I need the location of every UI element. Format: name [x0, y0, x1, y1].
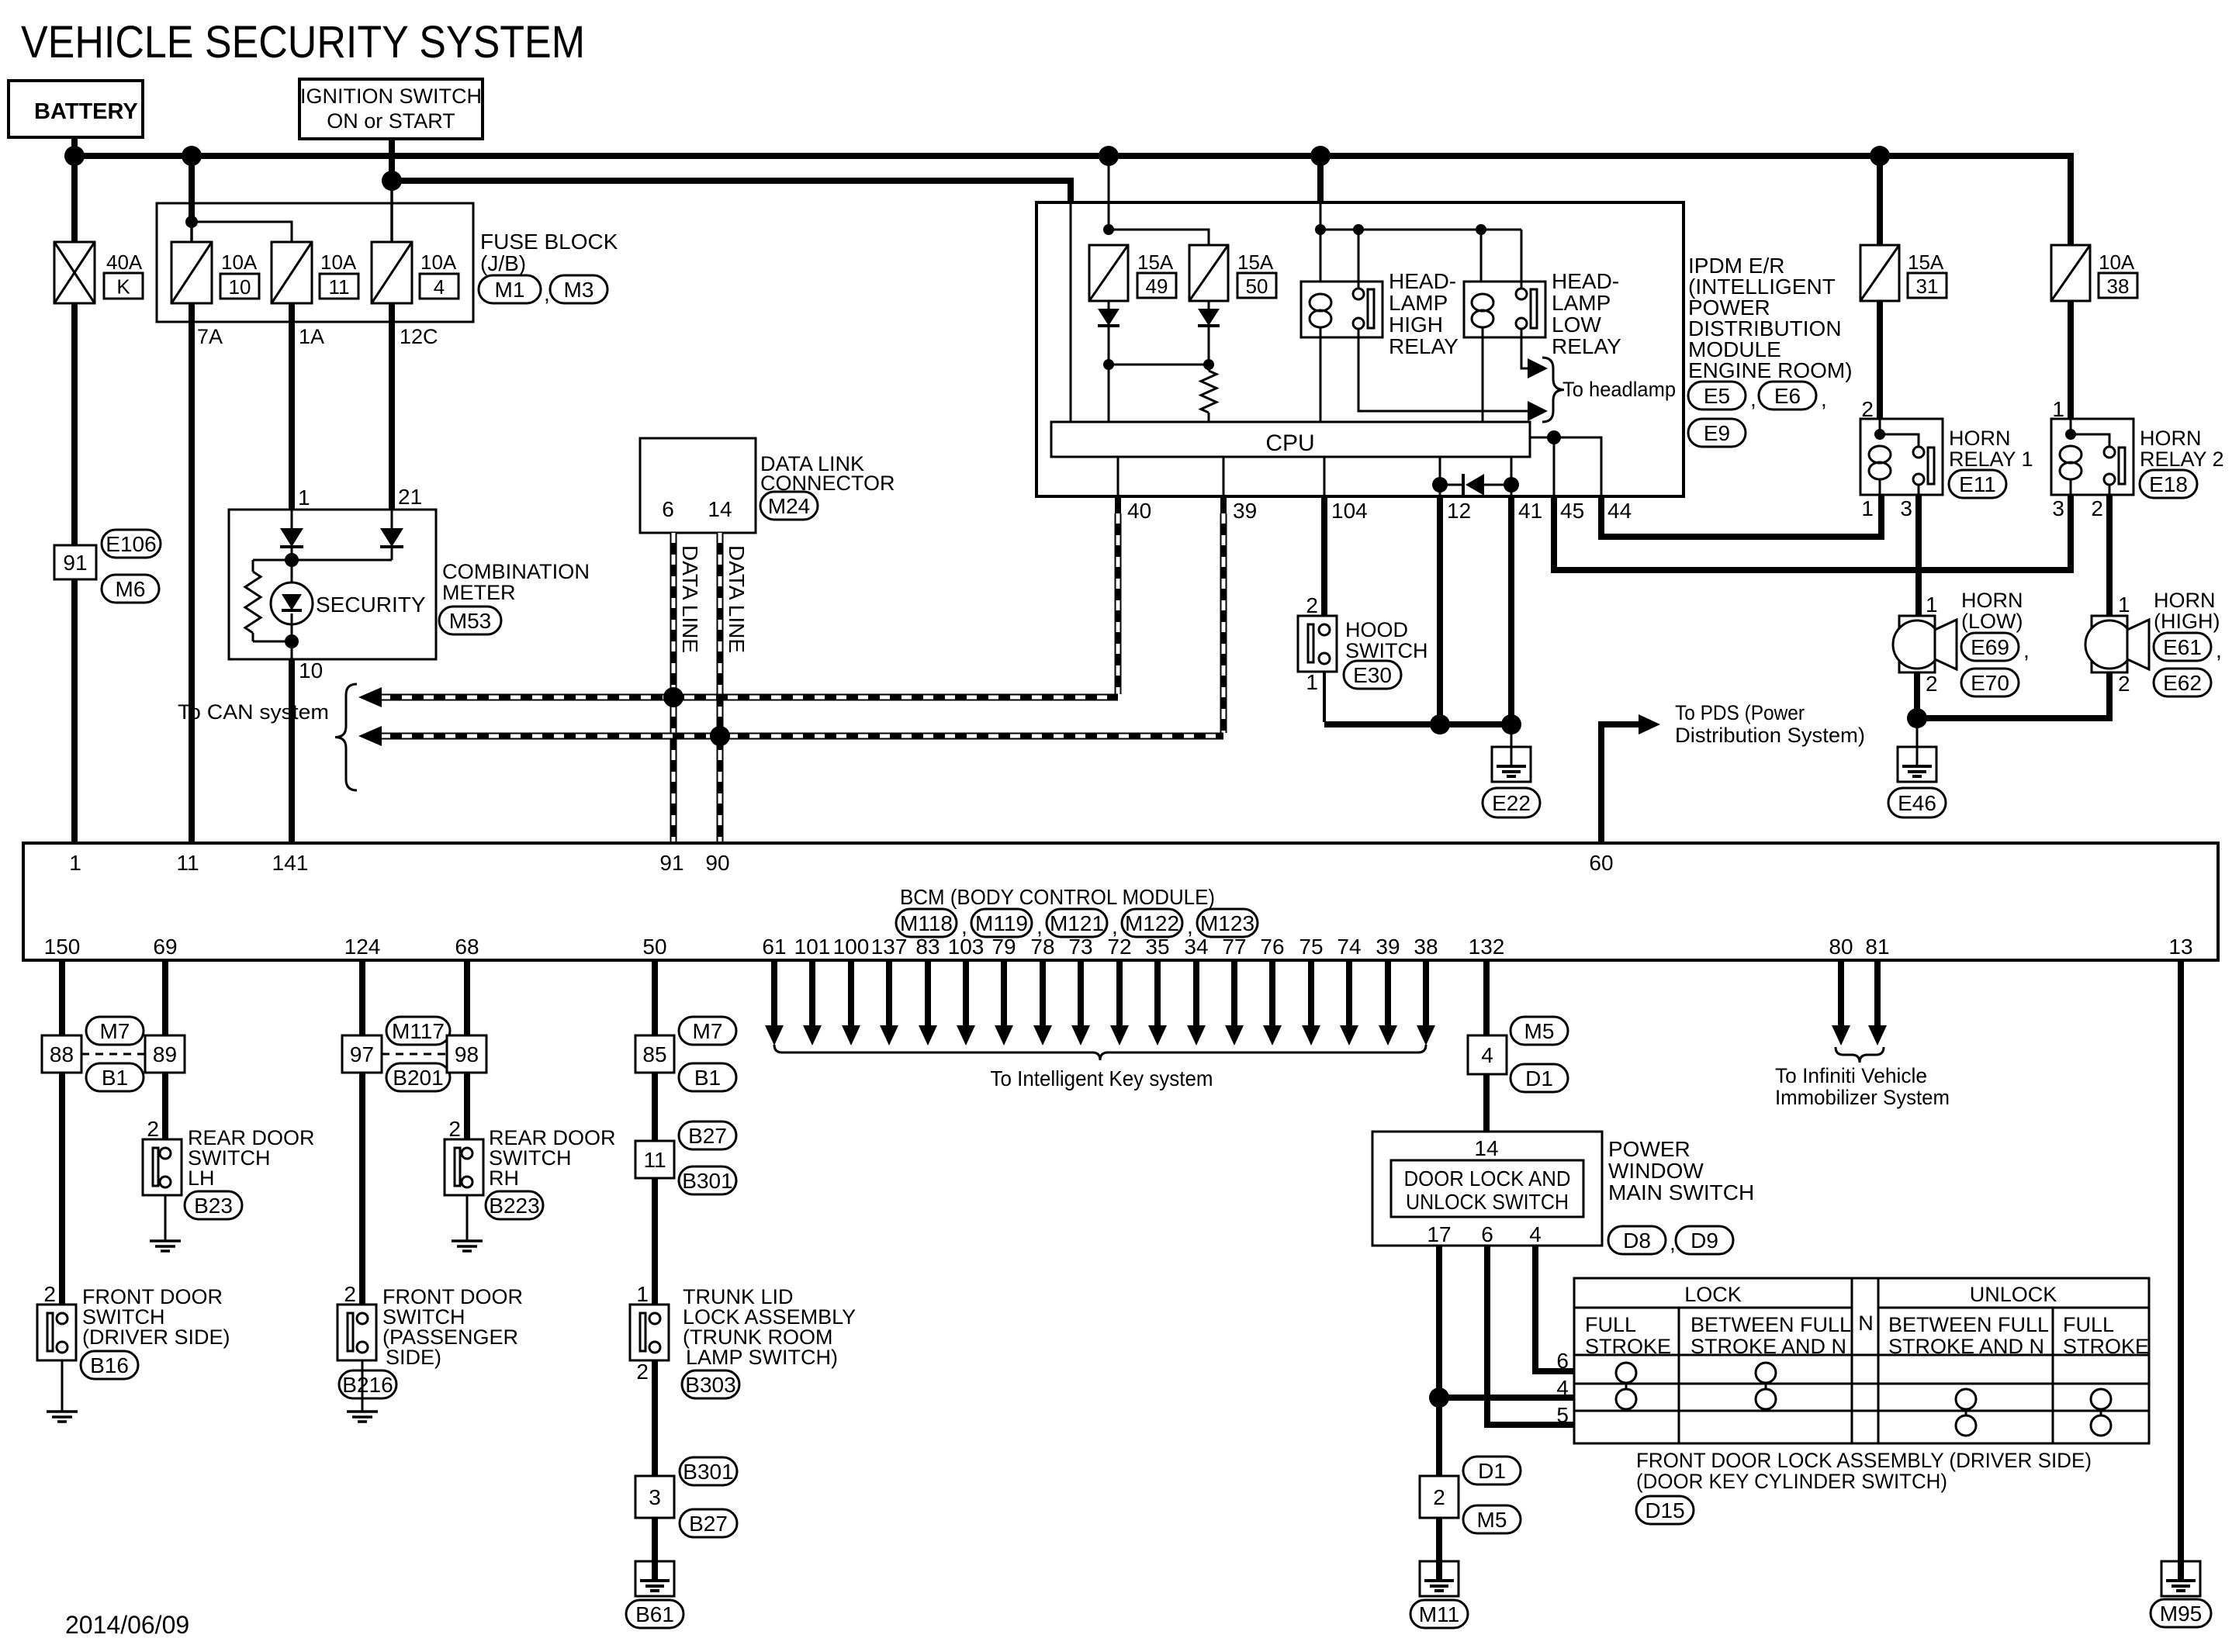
svg-text:D1: D1	[1478, 1459, 1506, 1483]
resistor IPDM	[1201, 371, 1216, 413]
svg-text:45: 45	[1560, 499, 1584, 523]
svg-text:15A: 15A	[1237, 251, 1274, 274]
svg-text:,: ,	[1750, 387, 1756, 411]
connector B216 oval	[339, 1370, 396, 1398]
svg-text:HEAD-: HEAD-	[1389, 269, 1456, 293]
wire BCM pin 103 to intelligent key	[963, 960, 969, 1027]
contact lock full stroke	[1616, 1363, 1636, 1383]
wire relay1 pin3 to horn low	[1915, 495, 1922, 616]
node ignition bus	[382, 171, 402, 191]
svg-text:7A: 7A	[197, 325, 223, 348]
svg-text:98: 98	[455, 1042, 479, 1066]
wire BCM 50 to connector 85	[652, 960, 658, 1035]
svg-text:FUSE BLOCK: FUSE BLOCK	[480, 230, 618, 254]
CPU box	[1051, 422, 1530, 457]
wire to ground E22	[1511, 724, 1513, 766]
svg-text:M53: M53	[449, 609, 491, 633]
svg-text:To CAN system: To CAN system	[178, 700, 329, 724]
connector M5 oval A	[1511, 1017, 1568, 1045]
wire IPDM pin45 to relay2 pin3	[1554, 495, 2071, 570]
svg-text:4: 4	[1556, 1376, 1569, 1400]
node bus to IPDM fuse 49	[1099, 146, 1119, 166]
wire fuse38 to relay2	[2068, 301, 2074, 419]
svg-text:10A: 10A	[2099, 251, 2135, 274]
svg-text:141: 141	[272, 851, 309, 875]
connector M95 oval	[2151, 1599, 2211, 1627]
wire ignition switch down	[389, 139, 395, 181]
svg-text:38: 38	[1414, 935, 1438, 959]
wire branch to fuse 11	[192, 222, 292, 242]
svg-text:49: 49	[1146, 275, 1168, 298]
svg-text:10: 10	[229, 275, 251, 299]
wire fuse31 feed	[1877, 156, 1883, 245]
svg-text:2: 2	[344, 1282, 356, 1306]
brace immobilizer	[1836, 1047, 1884, 1063]
diode D-IPDM-horn	[1440, 484, 1462, 486]
connector M3 oval	[550, 275, 607, 303]
svg-text:79: 79	[991, 935, 1016, 959]
svg-text:17: 17	[1427, 1222, 1451, 1246]
svg-text:FULL: FULL	[1585, 1313, 1636, 1336]
svg-text:LAMP SWITCH): LAMP SWITCH)	[686, 1346, 838, 1369]
connector D8 oval	[1608, 1226, 1666, 1254]
horn relay 2 coil	[2070, 419, 2072, 434]
horn relay 2 box	[2051, 419, 2133, 495]
node relay2 coil top	[2065, 429, 2076, 440]
diode D-meter-1	[291, 510, 293, 528]
diode D-meter-2	[391, 510, 393, 528]
wire front door passenger to ground	[362, 1360, 364, 1412]
wire diode joins	[1108, 326, 1110, 365]
svg-text:FRONT DOOR LOCK ASSEMBLY (DRIV: FRONT DOOR LOCK ASSEMBLY (DRIVER SIDE)	[1636, 1449, 2092, 1472]
svg-text:UNLOCK SWITCH: UNLOCK SWITCH	[1406, 1190, 1569, 1214]
svg-text:11: 11	[643, 1148, 666, 1172]
svg-text:D15: D15	[1645, 1498, 1684, 1522]
wire BCM pin 38 to intelligent key	[1423, 960, 1429, 1027]
svg-text:BATTERY: BATTERY	[34, 99, 138, 124]
svg-text:To PDS (Power: To PDS (Power	[1675, 701, 1805, 724]
svg-text:80: 80	[1829, 935, 1853, 959]
resistor meter	[252, 560, 254, 572]
node pin17 branch	[1429, 1388, 1449, 1408]
svg-text:M6: M6	[116, 577, 146, 601]
svg-text:E5: E5	[1704, 384, 1730, 408]
connector M121 oval	[1047, 909, 1107, 937]
wire IPDM pin41 down	[1508, 496, 1514, 724]
wire BCM pin 74 to intelligent key	[1346, 960, 1352, 1027]
svg-text:D1: D1	[1525, 1066, 1553, 1090]
svg-text:RELAY: RELAY	[1389, 334, 1459, 358]
svg-text:To headlamp: To headlamp	[1562, 378, 1676, 401]
svg-text:M117: M117	[392, 1019, 445, 1043]
power window main switch box	[1372, 1132, 1602, 1246]
svg-text:HORN: HORN	[2140, 427, 2202, 450]
label 38 box	[2099, 273, 2137, 298]
connector E18 oval	[2140, 470, 2197, 498]
svg-text:2: 2	[1433, 1485, 1445, 1509]
headlamp high relay box	[1301, 282, 1383, 337]
ground E46	[1898, 747, 1936, 782]
svg-text:91: 91	[63, 551, 87, 575]
headlamp low relay box	[1464, 282, 1545, 337]
wire HL-high contact to headlamp	[1358, 329, 1526, 411]
svg-text:1: 1	[69, 851, 81, 875]
svg-text:M5: M5	[1477, 1508, 1507, 1532]
node diode left	[1432, 477, 1448, 492]
svg-text:,: ,	[544, 282, 550, 306]
connector D15 oval	[1636, 1496, 1694, 1524]
wire rail drops	[1320, 230, 1322, 282]
wire BCM pin 34 to intelligent key	[1193, 960, 1199, 1027]
svg-text:HORN: HORN	[2154, 589, 2216, 612]
connector B301 oval A	[679, 1166, 736, 1194]
svg-text:68: 68	[455, 935, 479, 959]
fusible link K 40A	[54, 242, 95, 303]
svg-text:Immobilizer System: Immobilizer System	[1775, 1086, 1950, 1109]
svg-text:DOOR LOCK AND: DOOR LOCK AND	[1404, 1166, 1571, 1191]
svg-text:35: 35	[1145, 935, 1169, 959]
svg-text:11: 11	[329, 275, 350, 299]
svg-text:IGNITION SWITCH: IGNITION SWITCH	[300, 85, 482, 108]
svg-text:74: 74	[1337, 935, 1361, 959]
wire fuse31 to relay1	[1877, 301, 1883, 419]
svg-text:88: 88	[50, 1042, 74, 1066]
wire front door driver to ground	[61, 1360, 64, 1412]
wire IPDM pin12 down	[1437, 496, 1443, 724]
svg-text:LAMP: LAMP	[1389, 291, 1448, 315]
svg-text:To Intelligent Key system: To Intelligent Key system	[991, 1066, 1213, 1090]
wire fuse 49 feed	[1108, 156, 1110, 230]
node hood-41 junction	[1501, 714, 1521, 734]
node bus to IPDM relays	[1310, 146, 1331, 166]
connector 91 square	[54, 545, 96, 579]
connector E11 oval	[1949, 470, 2006, 498]
svg-text:E11: E11	[1959, 472, 1996, 496]
contact lock between	[1756, 1363, 1776, 1383]
horn relay 2 contact	[2104, 447, 2115, 458]
node rail HL-low coil	[1476, 224, 1486, 235]
svg-text:STROKE: STROKE	[1585, 1335, 1671, 1358]
svg-text:2: 2	[1861, 397, 1874, 421]
svg-text:137: 137	[871, 935, 908, 959]
svg-text:POWER: POWER	[1608, 1137, 1690, 1161]
connector M24 oval	[760, 492, 818, 520]
node meter LED top	[285, 553, 299, 567]
fuse 11 10A	[272, 242, 312, 303]
fuse 49 15A	[1089, 245, 1128, 301]
wire BCM pin 101 to intelligent key	[809, 960, 815, 1027]
wire ignition feed inside IPDM	[1070, 203, 1072, 422]
IPDM E/R box	[1036, 202, 1684, 496]
connector E70 oval	[1961, 669, 2019, 696]
wire HL-low contact to headlamp	[1521, 329, 1526, 368]
wire CPU to pins 45 44	[1530, 437, 1601, 496]
svg-text:69: 69	[153, 935, 177, 959]
wire BCM pin60 to PDS	[1601, 724, 1639, 843]
ground front door passenger	[347, 1410, 378, 1413]
connector M5 oval B	[1463, 1505, 1521, 1533]
wire BCM pin 83 to intelligent key	[925, 960, 931, 1027]
wire 7A fuse10 to BCM pin 11	[189, 303, 195, 843]
wire connector 4 to PW switch	[1483, 1074, 1490, 1132]
wire fuse 10 feed	[189, 156, 195, 222]
wire data line DLC-14 to BCM 90	[717, 533, 724, 843]
svg-text:1A: 1A	[299, 325, 324, 348]
node rail HL-high contact	[1353, 224, 1364, 235]
svg-text:VEHICLE SECURITY SYSTEM: VEHICLE SECURITY SYSTEM	[21, 17, 585, 67]
svg-text:6: 6	[1481, 1222, 1493, 1246]
wire fuse rail 49-50	[1109, 230, 1209, 245]
svg-text:31: 31	[1916, 275, 1939, 298]
svg-text:E30: E30	[1353, 663, 1392, 687]
horn high symbol	[2092, 616, 2127, 672]
svg-text:14: 14	[708, 497, 732, 521]
horn relay 1 link	[1880, 434, 1919, 447]
svg-text:10A: 10A	[420, 251, 457, 274]
svg-text:E9: E9	[1704, 421, 1730, 445]
svg-text:83: 83	[915, 935, 940, 959]
connector D9 oval	[1676, 1226, 1733, 1254]
wire data line pin39	[1220, 496, 1227, 513]
svg-text:E61: E61	[2163, 635, 2202, 659]
svg-text:B1: B1	[694, 1066, 721, 1090]
connector M53 oval	[439, 607, 501, 634]
svg-text:SWITCH: SWITCH	[1345, 639, 1427, 662]
brace to headlamp	[1542, 358, 1564, 422]
horn relay 1 coil	[1879, 419, 1881, 434]
wire CPU pin12 stub	[1439, 457, 1441, 485]
svg-text:B301: B301	[682, 1169, 732, 1193]
svg-text:B216: B216	[342, 1373, 393, 1397]
svg-text:41: 41	[1518, 499, 1542, 523]
svg-text:2: 2	[43, 1282, 56, 1306]
svg-text:60: 60	[1589, 851, 1613, 875]
svg-text:K: K	[116, 275, 130, 299]
svg-text:1: 1	[636, 1282, 649, 1306]
svg-text:STROKE: STROKE	[2063, 1335, 2149, 1358]
connector D1 oval A	[1511, 1064, 1568, 1092]
connector B201 oval	[386, 1063, 450, 1091]
ground front door driver	[47, 1410, 78, 1413]
door lock and unlock switch box	[1391, 1160, 1583, 1217]
headlamp low relay contact	[1516, 289, 1527, 299]
wire 88 to front door switch driver	[59, 1073, 65, 1305]
connector M122 oval	[1122, 909, 1182, 937]
combination meter box	[229, 510, 436, 659]
battery B+ source	[9, 81, 143, 137]
svg-text:E70: E70	[1971, 671, 2009, 695]
svg-text:2: 2	[1926, 672, 1938, 696]
svg-text:2: 2	[147, 1117, 159, 1141]
svg-text:M121: M121	[1050, 911, 1104, 935]
wire hood switch to ground rail	[1323, 672, 1326, 722]
wire 85 to connector 11	[652, 1073, 658, 1141]
node IPDM fuse rail left	[1103, 224, 1114, 235]
svg-text:E6: E6	[1774, 384, 1801, 408]
wire data line pin40	[1115, 496, 1121, 513]
svg-text:(LOW): (LOW)	[1961, 610, 2023, 633]
svg-text:E69: E69	[1971, 635, 2009, 659]
node diode right	[1504, 477, 1519, 492]
wire 11 to trunk lid switch	[652, 1178, 658, 1305]
wire HL-high coil to CPU	[1320, 337, 1322, 422]
wire link 88-89	[81, 1053, 145, 1056]
wire horn low to ground	[1914, 672, 1920, 718]
node relay1 coil top	[1874, 429, 1885, 440]
svg-text:39: 39	[1376, 935, 1400, 959]
svg-text:150: 150	[44, 935, 81, 959]
svg-text:(DRIVER SIDE): (DRIVER SIDE)	[82, 1325, 230, 1349]
svg-text:E22: E22	[1492, 791, 1531, 815]
connector 11 square	[635, 1141, 674, 1178]
connector E61 oval	[2154, 633, 2211, 661]
wire BCM 68 to connector 98	[464, 960, 470, 1035]
wire battery to bus	[71, 137, 78, 156]
svg-text:38: 38	[2107, 275, 2130, 298]
connector E22 oval	[1483, 788, 1540, 817]
svg-text:SECURITY: SECURITY	[316, 593, 426, 617]
contact unlock full stroke	[2091, 1389, 2111, 1409]
svg-text:81: 81	[1865, 935, 1889, 959]
svg-text:N: N	[1858, 1312, 1874, 1335]
ignition switch source	[299, 79, 483, 139]
wire BCM pin 76 to intelligent key	[1269, 960, 1275, 1027]
svg-text:E62: E62	[2163, 671, 2202, 695]
svg-text:34: 34	[1184, 935, 1208, 959]
svg-text:M118: M118	[900, 911, 953, 935]
svg-text:LAMP: LAMP	[1552, 291, 1611, 315]
svg-text:M95: M95	[2160, 1602, 2202, 1626]
svg-text:,: ,	[2023, 638, 2030, 662]
connector E62 oval	[2154, 669, 2211, 696]
connector D1 oval B	[1463, 1457, 1521, 1484]
svg-text:RH: RH	[489, 1166, 519, 1190]
svg-text:40A: 40A	[106, 251, 143, 274]
node battery-fusible link K	[64, 146, 85, 166]
wire CAN line lower	[380, 733, 1223, 740]
connector 2 square	[1420, 1476, 1459, 1518]
svg-text:4: 4	[1481, 1043, 1493, 1067]
connector B223 oval	[486, 1191, 543, 1219]
wire HL-low coil to CPU	[1482, 337, 1484, 422]
svg-text:6: 6	[662, 497, 674, 521]
svg-text:B27: B27	[688, 1124, 727, 1148]
wire BCM pin 78 to intelligent key	[1040, 960, 1046, 1027]
svg-text:90: 90	[705, 851, 729, 875]
svg-text:HORN: HORN	[1961, 589, 2023, 612]
svg-text:M24: M24	[768, 494, 810, 518]
wire BCM pin 79 to intelligent key	[1001, 960, 1007, 1027]
connector B16 oval	[81, 1351, 138, 1379]
ground rear door RH	[452, 1239, 483, 1242]
wire connector 3 to ground B61	[652, 1518, 658, 1581]
svg-text:UNLOCK: UNLOCK	[1970, 1283, 2057, 1306]
hood switch	[1298, 616, 1337, 672]
svg-text:3: 3	[649, 1485, 661, 1509]
svg-text:104: 104	[1331, 499, 1368, 523]
connector B303 oval	[682, 1370, 739, 1398]
horn relay 2 link	[2071, 434, 2109, 447]
wire ignition bus	[392, 181, 1071, 203]
svg-text:15A: 15A	[1908, 251, 1944, 274]
wire meter internal join	[291, 547, 293, 560]
node CAN upper DLC6	[663, 687, 683, 707]
wire CPU pin40 stub	[1117, 457, 1119, 496]
trunk lid lock switch	[630, 1305, 669, 1360]
svg-text:5: 5	[1556, 1403, 1569, 1427]
fuse 38 10A	[2051, 245, 2090, 301]
horn low symbol	[1899, 616, 1935, 672]
svg-text:21: 21	[398, 485, 422, 509]
wire relay rail feed	[1317, 156, 1324, 202]
svg-text:14: 14	[1474, 1136, 1498, 1160]
svg-text:D9: D9	[1690, 1229, 1718, 1253]
svg-text:To Infiniti Vehicle: To Infiniti Vehicle	[1775, 1064, 1927, 1087]
svg-text:B303: B303	[685, 1373, 735, 1397]
connector E106 oval	[102, 530, 161, 558]
svg-text:1: 1	[1926, 593, 1938, 617]
svg-text:132: 132	[1469, 935, 1505, 959]
node hood-12 junction	[1430, 714, 1450, 734]
node fuse block branch	[185, 216, 198, 228]
svg-text:(DOOR KEY CYLINDER SWITCH): (DOOR KEY CYLINDER SWITCH)	[1636, 1470, 1947, 1493]
connector 85 square	[635, 1035, 674, 1073]
svg-text:M123: M123	[1200, 911, 1254, 935]
svg-text:B201: B201	[393, 1066, 443, 1090]
wire PW pin 6 to table row5	[1487, 1246, 1574, 1425]
svg-text:40: 40	[1127, 499, 1151, 523]
svg-text:COMBINATION: COMBINATION	[442, 560, 590, 583]
rear door switch LH	[143, 1139, 182, 1195]
svg-text:10A: 10A	[320, 251, 357, 274]
connector B1 oval A	[86, 1063, 144, 1091]
svg-text:72: 72	[1107, 935, 1131, 959]
svg-text:39: 39	[1233, 499, 1257, 523]
wire fusible link K feed	[71, 156, 78, 242]
svg-text:BETWEEN FULL: BETWEEN FULL	[1690, 1313, 1851, 1336]
svg-text:2014/06/09: 2014/06/09	[65, 1611, 189, 1639]
wire BCM pin 39 to intelligent key	[1385, 960, 1391, 1027]
wire 49 branch to CPU	[1108, 365, 1110, 422]
svg-text:103: 103	[948, 935, 985, 959]
wire meter pin 10 to BCM pin 141	[289, 659, 295, 843]
svg-text:LH: LH	[188, 1166, 215, 1190]
wire CAN line upper	[380, 694, 1118, 701]
wire CPU pin41 stub	[1511, 457, 1513, 485]
connector E5 oval	[1688, 382, 1746, 410]
svg-text:76: 76	[1260, 935, 1284, 959]
node diode join left	[1103, 359, 1114, 370]
brace to CAN	[335, 684, 357, 790]
svg-text:D8: D8	[1623, 1229, 1651, 1253]
connector M1 oval	[479, 275, 541, 303]
svg-text:B27: B27	[689, 1512, 728, 1536]
wire fuse38 feed	[2068, 156, 2074, 245]
label 50 box	[1237, 273, 1276, 298]
wire BCM pin 73 to intelligent key	[1078, 960, 1084, 1027]
svg-text:M122: M122	[1125, 911, 1179, 935]
front door switch driver side	[37, 1305, 76, 1360]
connector M123 oval	[1197, 909, 1258, 937]
wire IPDM pin104 to hood switch	[1321, 496, 1327, 616]
wire BCM pin 72 to intelligent key	[1116, 960, 1123, 1027]
svg-text:85: 85	[642, 1042, 666, 1066]
node diode join right	[1203, 359, 1214, 370]
svg-text:B1: B1	[102, 1066, 128, 1090]
ground E22	[1492, 747, 1531, 782]
fuse 50 15A	[1189, 245, 1228, 301]
wire relay2 pin2 to horn high	[2106, 495, 2113, 616]
